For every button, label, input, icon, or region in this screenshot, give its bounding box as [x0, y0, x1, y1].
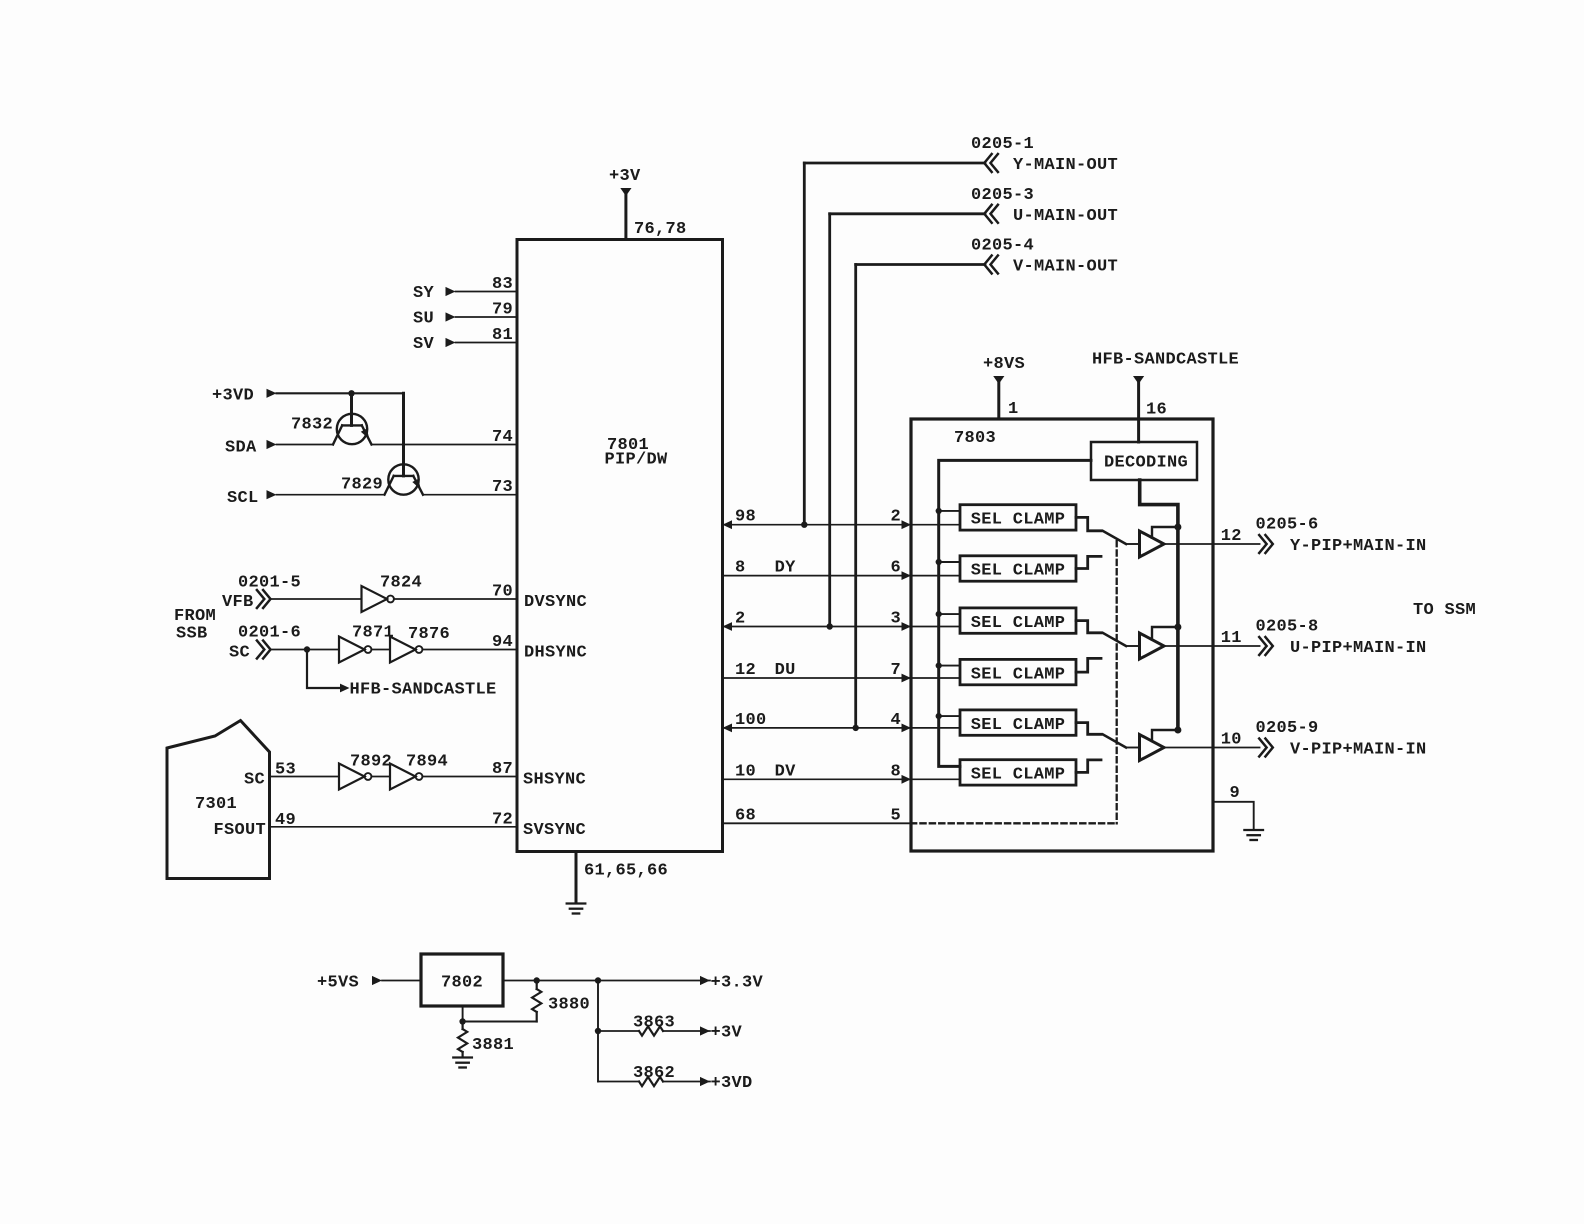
connector 0205-8 U-PIP+MAIN-IN pin 11	[1164, 618, 1427, 658]
svg-text:0201-6: 0201-6	[238, 624, 301, 643]
buffer V	[1140, 735, 1165, 761]
svg-text:7876: 7876	[408, 625, 450, 644]
wire 7802 output to +3.3V	[503, 974, 764, 993]
resistor 3863 to +3V	[598, 1014, 743, 1043]
svg-text:SEL CLAMP: SEL CLAMP	[971, 511, 1066, 530]
junction dot clamp bus 3	[936, 611, 960, 617]
svg-text:3881: 3881	[472, 1036, 514, 1055]
wire +3V/+3VD branch vertical	[597, 981, 599, 1082]
inverter 7892	[339, 753, 392, 790]
svg-text:70: 70	[492, 583, 513, 602]
svg-text:2: 2	[735, 610, 746, 629]
svg-text:+3V: +3V	[609, 167, 641, 186]
wire U-MAIN-OUT	[830, 214, 985, 627]
svg-text:0201-5: 0201-5	[238, 574, 301, 593]
wire clamp 1 input	[911, 524, 960, 526]
svg-text:+5VS: +5VS	[317, 974, 359, 993]
svg-text:SEL CLAMP: SEL CLAMP	[971, 766, 1066, 785]
SEL CLAMP box 2	[960, 556, 1076, 581]
svg-text:DY: DY	[775, 559, 797, 578]
svg-text:79: 79	[492, 301, 513, 320]
svg-text:98: 98	[735, 508, 756, 527]
svg-text:SEL CLAMP: SEL CLAMP	[971, 614, 1066, 633]
junction dot clamp bus 4	[936, 663, 960, 669]
svg-text:SV: SV	[413, 335, 435, 354]
svg-text:7871: 7871	[352, 624, 394, 643]
svg-text:74: 74	[492, 428, 513, 447]
wire/node row pin 10 to 8 signal DV	[723, 762, 912, 783]
svg-text:7829: 7829	[341, 476, 383, 495]
input SY pin 83	[413, 275, 517, 303]
svg-text:81: 81	[492, 326, 513, 345]
svg-text:SDA: SDA	[225, 439, 257, 458]
pin label 76,78	[634, 220, 687, 239]
svg-text:10: 10	[735, 762, 756, 781]
svg-text:0205-4: 0205-4	[971, 237, 1034, 256]
SEL CLAMP box 4	[960, 659, 1076, 684]
svg-text:FROM: FROM	[174, 607, 216, 626]
wire +3VD corner to 7829 base	[402, 393, 405, 476]
wire pin 68 to pin 5	[723, 806, 912, 825]
power rail +3V	[609, 167, 641, 240]
input SU pin 79	[413, 301, 517, 329]
inverter 7876	[390, 625, 450, 663]
net +3VD input	[212, 387, 404, 406]
label FROM SSB	[174, 607, 216, 644]
svg-text:SEL CLAMP: SEL CLAMP	[971, 562, 1066, 581]
inverter 7871	[339, 624, 394, 663]
svg-text:+8VS: +8VS	[983, 355, 1025, 374]
svg-text:2: 2	[890, 508, 901, 527]
svg-text:+3V: +3V	[711, 1024, 743, 1043]
junction dot SC/HFB branch	[304, 646, 310, 652]
switch contacts Y	[1076, 517, 1101, 568]
IC 7301 outline	[167, 721, 270, 879]
wire 7802 gnd to 3880	[463, 1006, 537, 1022]
svg-text:VFB: VFB	[222, 593, 254, 612]
svg-text:12: 12	[1221, 527, 1242, 546]
wire 7894 to pin 87 SHSYNC	[422, 760, 586, 790]
buffer Y	[1140, 531, 1165, 557]
wire/node row pin 8 to 6 signal DY	[723, 559, 912, 580]
wire/node row pin 2 to 3	[723, 610, 912, 631]
switch blade V	[1103, 735, 1140, 748]
wire clamp 6 input	[911, 778, 960, 780]
svg-text:DV: DV	[775, 762, 797, 781]
junction dot 3880 top	[534, 977, 540, 983]
wire SC to 7871	[271, 649, 340, 651]
wire/node row pin 12 to 7 signal DU	[723, 661, 912, 682]
svg-text:68: 68	[735, 806, 756, 825]
svg-text:3: 3	[890, 610, 901, 629]
wire/node row pin 100 to 4	[723, 711, 912, 732]
svg-text:HFB-SANDCASTLE: HFB-SANDCASTLE	[1092, 351, 1239, 370]
resistor 3862 to +3VD	[598, 1064, 753, 1093]
svg-text:PIP/DW: PIP/DW	[605, 451, 669, 470]
wire clamp 2 input	[911, 575, 960, 577]
resistor 3880	[532, 981, 590, 1022]
svg-text:FSOUT: FSOUT	[213, 821, 266, 840]
svg-text:SEL CLAMP: SEL CLAMP	[971, 665, 1066, 684]
svg-text:73: 73	[492, 478, 513, 497]
svg-text:76,78: 76,78	[634, 220, 687, 239]
DECODING box	[1091, 442, 1197, 480]
pin FSOUT 49 to pin 72 SVSYNC	[213, 810, 586, 840]
svg-text:SC: SC	[229, 644, 250, 663]
buffer Y enable	[1152, 524, 1181, 538]
svg-text:9: 9	[1229, 784, 1240, 803]
svg-text:7301: 7301	[195, 795, 237, 814]
net HFB-SANDCASTLE branch	[307, 650, 497, 700]
svg-text:U-MAIN-OUT: U-MAIN-OUT	[1013, 207, 1118, 226]
wire SCL to pin 73	[423, 478, 517, 497]
svg-text:83: 83	[492, 275, 513, 294]
svg-text:100: 100	[735, 711, 767, 730]
svg-text:16: 16	[1146, 401, 1167, 420]
junction dot clamp bus 5	[936, 713, 960, 719]
IC U7801 PIP/DW box	[517, 240, 723, 852]
wire +3VD to 7832 base	[350, 393, 353, 425]
transistor 7829	[341, 464, 423, 494]
net HFB-SANDCASTLE pin 16	[1092, 351, 1239, 443]
svg-text:SY: SY	[413, 284, 435, 303]
junction dot +3.3V branch	[595, 977, 601, 983]
svg-text:TO SSM: TO SSM	[1413, 601, 1476, 620]
svg-text:7803: 7803	[954, 429, 996, 448]
svg-text:DHSYNC: DHSYNC	[524, 644, 587, 663]
control bus from DECODING	[1140, 480, 1178, 730]
svg-text:5: 5	[890, 806, 901, 825]
input SDA	[225, 439, 333, 458]
svg-text:+3VD: +3VD	[711, 1074, 753, 1093]
svg-text:SSB: SSB	[176, 625, 208, 644]
wire 7876 to pin 94 DHSYNC	[422, 633, 587, 663]
input SV pin 81	[413, 326, 517, 354]
switch contacts U	[1076, 621, 1101, 673]
svg-text:11: 11	[1221, 629, 1242, 648]
IC 7801 name label	[605, 436, 669, 470]
svg-text:Y-PIP+MAIN-IN: Y-PIP+MAIN-IN	[1290, 537, 1427, 556]
wire 7871 to 7876	[371, 649, 390, 651]
svg-text:87: 87	[492, 760, 513, 779]
svg-text:8: 8	[735, 559, 746, 578]
power +8VS pin 1	[983, 355, 1025, 419]
connector 0205-1 Y-MAIN-OUT	[971, 135, 1118, 175]
wire clamp 5 input	[911, 727, 960, 729]
connector 0205-3 U-MAIN-OUT	[971, 186, 1118, 226]
svg-text:0205-8: 0205-8	[1256, 618, 1319, 637]
svg-text:SVSYNC: SVSYNC	[523, 821, 586, 840]
junction dot +3V branch	[595, 1028, 601, 1034]
inverter 7824	[362, 574, 423, 613]
connector 0205-9 V-PIP+MAIN-IN pin 10	[1164, 719, 1427, 759]
svg-text:SCL: SCL	[227, 489, 259, 508]
svg-text:SU: SU	[413, 310, 434, 329]
svg-text:+3.3V: +3.3V	[711, 974, 764, 993]
svg-text:+3VD: +3VD	[212, 387, 254, 406]
svg-text:72: 72	[492, 810, 513, 829]
inverter 7894	[390, 753, 448, 790]
connector 0205-6 Y-PIP+MAIN-IN pin 12	[1164, 516, 1427, 556]
svg-text:SC: SC	[244, 771, 265, 790]
resistor 3881	[458, 1022, 514, 1058]
svg-text:8: 8	[890, 762, 901, 781]
svg-text:3880: 3880	[548, 996, 590, 1015]
SEL CLAMP box 1	[960, 505, 1076, 530]
svg-text:6: 6	[890, 559, 901, 578]
input +5VS	[317, 974, 421, 993]
svg-text:7802: 7802	[441, 974, 483, 993]
wire DECODING to clamp bus	[939, 460, 1091, 766]
svg-text:4: 4	[890, 711, 901, 730]
svg-text:0205-1: 0205-1	[971, 135, 1034, 154]
svg-text:SEL CLAMP: SEL CLAMP	[971, 716, 1066, 735]
connector 0205-4 V-MAIN-OUT	[971, 237, 1118, 277]
regulator 7802 box	[421, 954, 503, 1006]
svg-text:V-MAIN-OUT: V-MAIN-OUT	[1013, 258, 1118, 277]
buffer V enable	[1152, 727, 1181, 742]
wire 7824 to pin 70 DVSYNC	[394, 583, 587, 613]
wire SDA to pin 74	[372, 428, 518, 447]
svg-text:0205-6: 0205-6	[1256, 516, 1319, 535]
transistor 7832	[291, 414, 372, 445]
buffer U	[1140, 633, 1165, 659]
wire clamp 4 input	[911, 677, 960, 679]
wire Y-MAIN-OUT	[804, 163, 985, 525]
wire VFB to 7824	[271, 598, 362, 600]
svg-text:3863: 3863	[633, 1014, 675, 1033]
dashed switch control line	[911, 541, 1117, 823]
svg-text:12: 12	[735, 661, 756, 680]
ground below 3881	[453, 1058, 472, 1068]
junction dot +3VD/7832	[348, 390, 354, 396]
svg-text:3862: 3862	[633, 1064, 675, 1083]
svg-text:7824: 7824	[380, 574, 422, 593]
connector 0201-5 VFB	[222, 574, 301, 613]
junction dot 3881 top	[459, 1018, 465, 1024]
svg-text:1: 1	[1008, 400, 1019, 419]
IC 7301 label	[195, 795, 237, 814]
svg-text:7832: 7832	[291, 416, 333, 435]
connector 0201-6 SC	[229, 624, 301, 663]
label TO SSM	[1413, 601, 1476, 620]
junction dot clamp bus 1	[936, 508, 960, 514]
input SCL	[227, 489, 385, 508]
wire clamp 3 input	[911, 626, 960, 628]
svg-text:7892: 7892	[350, 753, 392, 772]
pin 9 ground of 7803	[1213, 784, 1263, 840]
svg-text:Y-MAIN-OUT: Y-MAIN-OUT	[1013, 156, 1118, 175]
svg-text:0205-3: 0205-3	[971, 186, 1034, 205]
svg-text:SHSYNC: SHSYNC	[523, 771, 586, 790]
svg-text:94: 94	[492, 633, 513, 652]
IC 7803 box	[911, 419, 1213, 851]
buffer U enable	[1152, 624, 1181, 640]
wire V-MAIN-OUT	[856, 265, 985, 728]
pin SC 53 of 7301	[244, 761, 339, 790]
junction dot clamp bus 2	[936, 559, 960, 565]
svg-text:V-PIP+MAIN-IN: V-PIP+MAIN-IN	[1290, 741, 1427, 760]
wire 7892 to 7894	[371, 776, 390, 778]
switch contacts V	[1076, 723, 1101, 773]
SEL CLAMP box 6	[960, 760, 1076, 785]
svg-text:U-PIP+MAIN-IN: U-PIP+MAIN-IN	[1290, 639, 1427, 658]
svg-text:10: 10	[1221, 731, 1242, 750]
svg-text:HFB-SANDCASTLE: HFB-SANDCASTLE	[350, 681, 497, 700]
svg-text:DU: DU	[775, 661, 796, 680]
svg-text:DECODING: DECODING	[1104, 454, 1188, 473]
svg-text:61,65,66: 61,65,66	[584, 862, 668, 881]
svg-text:7894: 7894	[406, 753, 448, 772]
SEL CLAMP box 5	[960, 710, 1076, 735]
ground 7801 pins 61,65,66	[567, 852, 668, 914]
SEL CLAMP box 3	[960, 608, 1076, 633]
svg-text:DVSYNC: DVSYNC	[524, 593, 587, 612]
svg-text:0205-9: 0205-9	[1256, 719, 1319, 738]
wire/node row pin 98 to 2	[723, 508, 912, 529]
switch blade U	[1103, 633, 1140, 646]
svg-text:7: 7	[890, 661, 901, 680]
switch blade Y	[1103, 531, 1140, 544]
IC 7803 label	[954, 429, 996, 448]
